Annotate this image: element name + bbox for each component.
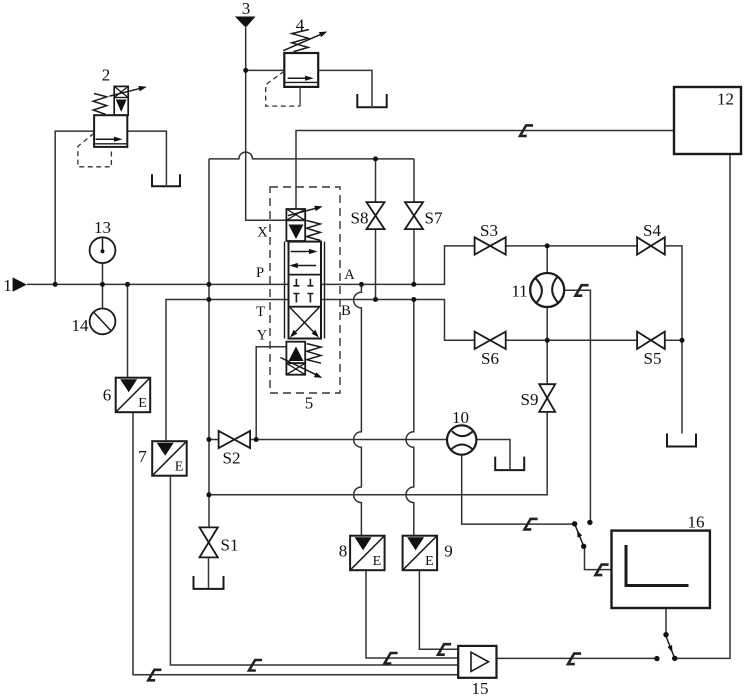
svg-text:S3: S3 xyxy=(480,221,498,240)
svg-text:A: A xyxy=(344,267,355,283)
svg-text:1: 1 xyxy=(3,276,12,295)
svg-text:2: 2 xyxy=(102,66,111,85)
svg-text:E: E xyxy=(175,460,184,475)
svg-text:T: T xyxy=(256,304,265,320)
svg-text:4: 4 xyxy=(296,16,305,35)
svg-text:B: B xyxy=(341,303,351,319)
svg-text:P: P xyxy=(256,265,264,281)
svg-text:S9: S9 xyxy=(521,390,539,409)
svg-text:Y: Y xyxy=(257,328,268,344)
svg-text:E: E xyxy=(138,396,147,411)
svg-text:5: 5 xyxy=(305,394,314,413)
svg-text:13: 13 xyxy=(94,218,111,237)
svg-text:S2: S2 xyxy=(223,449,241,468)
svg-text:S8: S8 xyxy=(351,209,369,228)
svg-text:3: 3 xyxy=(242,0,251,18)
svg-text:E: E xyxy=(373,554,382,569)
svg-text:S6: S6 xyxy=(481,349,499,368)
svg-text:16: 16 xyxy=(688,513,705,532)
svg-text:6: 6 xyxy=(103,386,112,405)
svg-text:S7: S7 xyxy=(425,209,443,228)
svg-text:7: 7 xyxy=(138,447,147,466)
svg-text:15: 15 xyxy=(472,679,489,698)
svg-text:E: E xyxy=(425,554,434,569)
svg-text:14: 14 xyxy=(72,316,90,335)
svg-text:12: 12 xyxy=(717,90,734,109)
svg-text:10: 10 xyxy=(452,408,469,427)
svg-text:S1: S1 xyxy=(221,536,239,555)
svg-text:S4: S4 xyxy=(643,221,661,240)
svg-text:9: 9 xyxy=(444,542,453,561)
svg-text:8: 8 xyxy=(339,542,348,561)
svg-text:X: X xyxy=(257,225,268,241)
svg-text:11: 11 xyxy=(511,282,527,301)
svg-text:S5: S5 xyxy=(644,349,662,368)
